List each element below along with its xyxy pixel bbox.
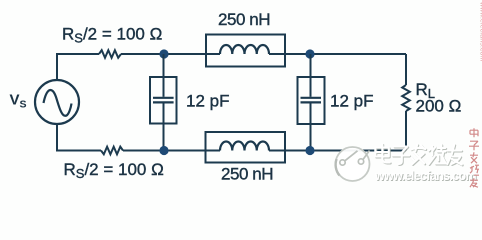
svg-text:www.elecfans.com: www.elecfans.com — [374, 169, 477, 183]
svg-text:200 Ω: 200 Ω — [416, 97, 462, 116]
watermark char shao — [429, 145, 447, 165]
node bottom-right junction — [305, 146, 314, 155]
watermark red vertical url top right — [479, 1, 482, 62]
watermark logo — [336, 147, 370, 181]
label RL — [416, 80, 436, 101]
capacitor C1 box — [150, 77, 177, 124]
watermark red char e4 — [470, 165, 479, 175]
svg-text:RS/2 = 100 Ω: RS/2 = 100 Ω — [64, 160, 164, 181]
label 250 nH top — [218, 10, 270, 29]
svg-text:250 nH: 250 nH — [221, 165, 273, 184]
capacitor C2 wire bottom stub — [310, 103, 312, 150]
svg-text:12 pF: 12 pF — [186, 91, 229, 110]
inductor L1 coil — [220, 45, 269, 54]
capacitor C1 plates — [153, 98, 174, 103]
watermark red char e1 — [470, 128, 478, 137]
watermark red char e2 — [469, 141, 479, 150]
capacitor C1 wire top stub — [163, 54, 165, 97]
resistor RS/2 bottom — [101, 147, 123, 155]
node top-left junction — [159, 49, 168, 58]
watermark char you — [447, 145, 462, 166]
watermark red char e5 — [470, 178, 478, 187]
svg-text:12 pF: 12 pF — [330, 91, 373, 110]
label RS/2 = 100 ohm top — [62, 25, 162, 46]
capacitor C2 box — [298, 77, 325, 124]
inductor L2 box — [206, 132, 286, 163]
label 200 ohm — [416, 97, 462, 116]
capacitor C2 plates — [301, 98, 322, 103]
svg-text:VS: VS — [10, 92, 27, 111]
label 12 pF right — [330, 91, 373, 110]
node top-right junction — [305, 49, 314, 58]
inductor L1 box — [206, 35, 285, 67]
svg-text:RS/2 = 100 Ω: RS/2 = 100 Ω — [62, 25, 162, 46]
capacitor C1 wire bottom stub — [163, 103, 165, 150]
inductor L2 coil — [220, 141, 269, 150]
wire bottom-left corner to source bottom — [57, 124, 101, 151]
label RS/2 = 100 ohm bottom — [64, 160, 164, 181]
wire right rail top — [405, 54, 407, 85]
wire source top to top-left corner — [57, 54, 99, 80]
resistor RL — [402, 85, 410, 111]
svg-text:www.elecfans.com: www.elecfans.com — [479, 1, 482, 62]
label 12 pF left — [186, 91, 229, 110]
watermark char dian — [375, 144, 390, 163]
watermark char fa — [411, 145, 426, 165]
watermark url — [374, 169, 477, 184]
wire bottom right segment — [269, 150, 406, 152]
wire L2 to bottom resistor — [123, 150, 220, 152]
svg-text:250 nH: 250 nH — [218, 10, 270, 29]
wire right rail bottom — [405, 111, 407, 151]
capacitor C2 wire top stub — [310, 54, 312, 97]
wire L1 to top-right corner — [269, 53, 406, 55]
label 250 nH bottom — [221, 165, 273, 184]
node bottom-left junction — [159, 146, 168, 155]
voltage source VS — [35, 80, 79, 124]
watermark red char e3 — [470, 152, 478, 163]
label VS — [10, 92, 27, 111]
watermark char zi — [392, 147, 410, 165]
resistor RS/2 top — [99, 50, 121, 58]
wire top resistor to inductor L1 — [121, 53, 220, 55]
